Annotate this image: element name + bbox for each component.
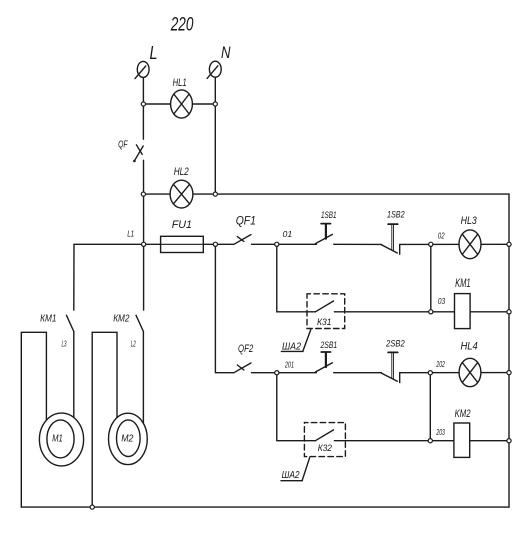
svg-text:220: 220 [170,14,194,35]
svg-text:HL1: HL1 [173,77,187,89]
junction node 03 [429,310,433,314]
wire M2 left loop [92,332,117,507]
circuit breaker QF [118,139,143,162]
svg-text:HL2: HL2 [174,166,189,178]
wire L terminal down to L1 node [142,77,144,310]
lamp HL4 [459,340,481,386]
svg-text:203: 203 [436,428,445,437]
junction node 201 [275,371,279,375]
wire N terminal down [214,77,216,194]
junction node L1 [142,242,146,246]
contactor contact KM1 (power) [40,314,74,349]
svg-text:HL4: HL4 [461,340,478,352]
wire node 01 down to K31 row [277,244,316,311]
svg-text:02: 02 [438,231,445,240]
pushbutton 1SB2 (NC) [381,210,405,255]
svg-text:KM2: KM2 [455,408,471,420]
terminal N [207,44,230,78]
label ША2 lower with leader [281,458,310,482]
svg-text:M2: M2 [121,433,133,445]
svg-text:ША2: ША2 [282,340,301,352]
svg-text:M1: M1 [52,433,63,445]
circuit breaker QF1 [234,216,256,245]
wire bottom rail [21,506,509,508]
wire KM1 contact to motor M1 [73,332,75,421]
wire K32 row to KM2 coil and rail [334,440,509,442]
wire FU1 node down to QF2 row [215,244,233,372]
svg-text:QF: QF [118,139,128,150]
svg-text:L2: L2 [131,340,136,349]
svg-text:1SB1: 1SB1 [321,210,337,221]
contactor contact KM2 (power) [113,314,143,349]
wire right rail [508,194,510,507]
junction node 02 [429,242,433,246]
terminal L [135,43,158,78]
svg-text:L1: L1 [127,229,134,238]
motor M2 [109,413,148,464]
junction node rail row4 [507,439,511,443]
pushbutton 2SB1 (NO) [315,340,337,372]
junction node at HL2 left [141,192,145,196]
svg-text:201: 201 [284,360,294,369]
svg-text:КМ1: КМ1 [40,314,56,325]
contactor coil KM2 [454,408,471,457]
svg-text:03: 03 [438,297,446,306]
wire row3 QF2-buttons-HL4 [252,372,510,374]
svg-text:01: 01 [283,230,293,239]
wire node 202 to node 203 [429,373,431,441]
wire row1 L1-FU1-QF1-buttons [74,243,509,245]
svg-text:QF2: QF2 [238,343,253,355]
svg-text:L: L [150,43,158,63]
svg-text:202: 202 [436,360,445,369]
motor M1 [39,413,83,466]
pushbutton 1SB1 (NO) [315,210,336,244]
wire K31 row to KM1 coil and rail [334,311,509,313]
junction node 01 [275,242,279,246]
junction node 203 [428,439,432,443]
junction node at HL2 right [213,192,217,196]
pushbutton 2SB2 (NC) [381,339,405,383]
wire HL2 row to right rail [143,193,509,195]
wire M1 left loop [21,332,46,507]
wire left drop to KM1 contact [73,244,75,310]
fuse FU1 [161,219,204,253]
svg-text:HL3: HL3 [461,215,478,227]
junction node at HL1 right [213,102,217,106]
lamp HL3 [459,215,481,259]
svg-text:N: N [221,44,231,62]
lamp HL2 [170,166,193,208]
svg-text:QF1: QF1 [236,216,256,228]
svg-text:L3: L3 [62,340,67,349]
contact K31 (dashed box) [307,294,345,329]
svg-text:2SB1: 2SB1 [320,340,337,351]
svg-text:К31: К31 [317,317,332,328]
wire KM2 contact to motor M2 [142,332,144,425]
junction node rail row3 [507,371,511,375]
contact K32 (dashed box) [304,423,345,457]
svg-text:FU1: FU1 [172,219,192,231]
junction node at HL1 left [141,102,145,106]
wire node 02 to node 03 [430,244,432,311]
svg-text:1SB2: 1SB2 [387,210,405,221]
wire node 201 down to K32 row [277,373,316,441]
lamp HL1 [171,77,193,118]
junction node rail row2 [507,310,511,314]
svg-text:KM1: KM1 [455,278,471,290]
contactor coil KM1 [455,278,471,329]
circuit breaker QF2 [234,343,253,373]
junction node after FU1 [213,242,217,246]
svg-text:К32: К32 [318,443,333,454]
junction node rail row1 [507,242,511,246]
wire HL1 row [143,103,215,105]
label ША2 upper with leader [281,330,310,353]
junction node bottom rail [90,505,94,509]
junction node 202 [428,371,432,375]
svg-text:2SB2: 2SB2 [385,339,405,350]
svg-text:КМ2: КМ2 [113,314,130,325]
svg-text:ША2: ША2 [282,469,300,481]
